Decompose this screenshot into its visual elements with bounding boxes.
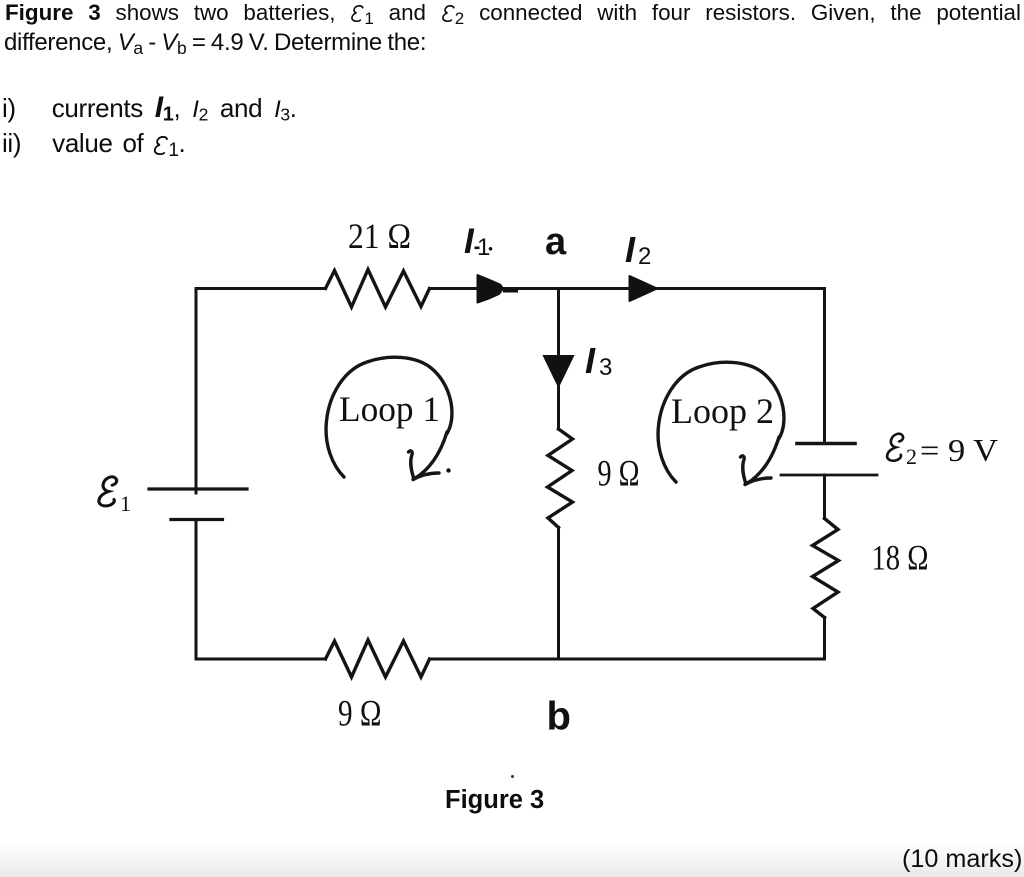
battery E2 plate short xyxy=(797,442,855,446)
small stray dot above caption xyxy=(511,775,514,778)
item i xyxy=(2,94,297,129)
battery E2 plate long xyxy=(781,474,877,477)
current arrow I2 xyxy=(630,276,658,301)
svg-text:I: I xyxy=(585,340,596,381)
label I1 xyxy=(464,222,492,261)
label I2 xyxy=(625,229,651,270)
figure caption xyxy=(445,786,544,814)
svg-text:b: b xyxy=(547,695,571,739)
svg-text:9 Ω: 9 Ω xyxy=(338,694,382,735)
svg-text:3: 3 xyxy=(599,354,612,381)
bottom gradient xyxy=(0,842,1024,877)
current arrow I3 xyxy=(544,356,573,386)
svg-text:2: 2 xyxy=(638,243,651,270)
label I3 xyxy=(585,340,612,381)
loop 1 stray dot xyxy=(446,468,450,472)
wire middle between arrow and resistor xyxy=(557,386,560,429)
svg-text:Loop 2: Loop 2 xyxy=(671,391,774,431)
svg-text:1: 1 xyxy=(120,491,131,516)
svg-text:= 9 V: = 9 V xyxy=(920,432,998,468)
wire right vertical lower xyxy=(823,618,826,660)
svg-text:Loop 1: Loop 1 xyxy=(339,389,440,429)
wire top middle xyxy=(430,287,825,290)
wire middle vertical upper xyxy=(557,289,560,358)
wire right vertical upper xyxy=(823,289,826,444)
paragraph line 1 xyxy=(5,0,1021,31)
item ii xyxy=(2,129,185,165)
label E2 = 9V xyxy=(887,432,998,469)
marks xyxy=(902,846,1022,872)
svg-text:2: 2 xyxy=(906,444,917,469)
resistor R1 21ohm xyxy=(326,270,430,308)
paragraph line 2 xyxy=(4,30,426,61)
loop 1 arrow xyxy=(326,357,452,479)
resistor R4 18ohm xyxy=(813,519,839,618)
resistor R3 9ohm xyxy=(548,429,573,528)
wire left vertical upper xyxy=(195,289,198,494)
svg-text:a: a xyxy=(545,221,567,263)
svg-text:I: I xyxy=(464,222,475,261)
current arrow I1 xyxy=(478,275,504,303)
svg-text:9 Ω: 9 Ω xyxy=(598,454,640,495)
svg-text:18 Ω: 18 Ω xyxy=(872,538,929,578)
svg-text:21 Ω: 21 Ω xyxy=(348,216,411,256)
battery E1 plate short xyxy=(171,518,223,521)
wire right vertical mid xyxy=(823,475,826,519)
resistor R2 9ohm bottom xyxy=(326,640,430,677)
wire overdraw after arrow I1 xyxy=(505,289,516,293)
wire bottom right xyxy=(430,658,825,661)
wire middle vertical lower xyxy=(557,528,560,660)
label E1 xyxy=(99,477,131,516)
loop 2 arrow xyxy=(658,362,784,484)
battery E1 plate long xyxy=(149,487,247,490)
wire left vertical lower xyxy=(195,520,198,660)
svg-text:I: I xyxy=(625,229,636,270)
wire bottom left xyxy=(196,658,326,661)
wire top-left horizontal xyxy=(196,287,326,290)
